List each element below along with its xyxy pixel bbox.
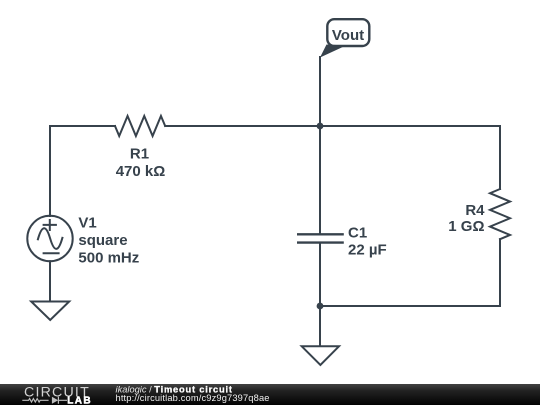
capacitor C1 bottom plate — [297, 241, 344, 243]
svg-text:500 mHz: 500 mHz — [78, 250, 139, 267]
svg-text:square: square — [78, 232, 127, 249]
capacitor C1 top plate — [297, 233, 344, 235]
junction dot (top node) — [317, 123, 324, 130]
logo resistor-diode squiggle — [22, 397, 67, 404]
svg-text:22 µF: 22 µF — [348, 241, 387, 258]
wire top-left (node corner to R1) — [50, 125, 115, 127]
svg-text:C1: C1 — [348, 224, 367, 241]
V1 plus sign — [44, 220, 56, 230]
wire left vertical (top wire to V1 top) — [49, 126, 51, 216]
svg-text:LAB: LAB — [67, 396, 92, 405]
wire C1 bottom to junction — [319, 243, 321, 306]
V1 sine wave — [38, 228, 63, 249]
wire right vertical upper (corner to R4) — [499, 126, 501, 189]
resistor R1 zigzag — [115, 116, 165, 136]
svg-text:R4: R4 — [465, 202, 485, 219]
V1 minus sign — [44, 252, 59, 254]
svg-text:R1: R1 — [130, 145, 149, 162]
svg-text:Vout: Vout — [332, 27, 364, 44]
wire right vertical lower (R4 to bottom corner) — [499, 239, 501, 306]
wire Vout vertical (flag tail to top junction) — [319, 57, 321, 126]
resistor R4 zigzag — [490, 189, 510, 239]
voltage source V1 circle — [27, 216, 72, 261]
wire middle vertical (junction to C1 top plate) — [319, 126, 321, 234]
node Vout flag box — [327, 19, 369, 46]
wire V1 bottom to ground 1 — [49, 261, 51, 301]
svg-text:470 kΩ: 470 kΩ — [116, 163, 166, 180]
ground symbol (under V1) — [31, 302, 69, 321]
node Vout flag tail — [320, 45, 346, 58]
svg-text:1 GΩ: 1 GΩ — [448, 218, 484, 235]
wire top-right (R1 to right corner) — [165, 125, 500, 127]
ground symbol (under C1) — [302, 346, 339, 365]
svg-text:http://circuitlab.com/c9z9g739: http://circuitlab.com/c9z9g7397q8ae — [116, 393, 270, 403]
footer bar — [0, 384, 540, 405]
svg-text:V1: V1 — [78, 215, 96, 232]
wire bottom (right corner to C1 junction) — [320, 305, 500, 307]
junction dot (bottom node) — [317, 303, 324, 310]
wire junction to ground 2 — [319, 306, 321, 346]
